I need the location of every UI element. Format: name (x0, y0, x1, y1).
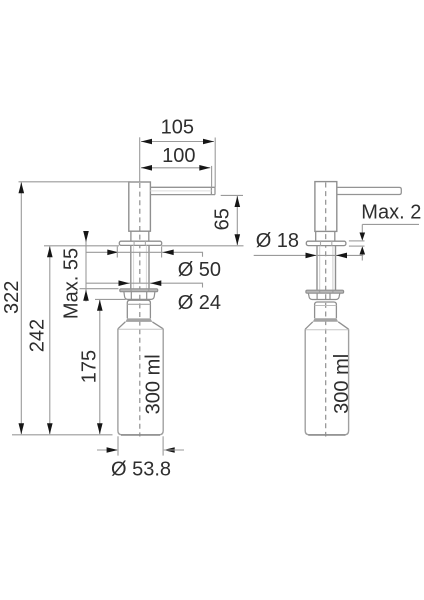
dim 242 (49, 246, 51, 434)
pump head body right (315, 182, 337, 232)
pump head body left (129, 182, 151, 231)
dim 175 (99, 300, 101, 435)
svg-text:175: 175 (78, 350, 100, 383)
flange right (306, 241, 346, 245)
bottle shoulder right (305, 322, 348, 329)
dim 105 line (141, 141, 214, 143)
svg-text:Ø 24: Ø 24 (178, 292, 221, 314)
spout right (337, 187, 402, 194)
svg-text:Max. 55: Max. 55 (61, 248, 83, 319)
dim 322 (20, 182, 22, 434)
bottle left (118, 329, 163, 435)
svg-text:322: 322 (1, 281, 23, 314)
extension lines for 105/100 (139, 137, 141, 182)
dim 100 line (141, 167, 210, 169)
svg-text:300 ml: 300 ml (143, 354, 165, 414)
centerline left view (139, 183, 141, 437)
svg-text:Ø 53.8: Ø 53.8 (111, 459, 171, 481)
svg-text:300 ml: 300 ml (331, 354, 353, 414)
nut right (308, 293, 339, 299)
svg-text:Ø 50: Ø 50 (178, 259, 221, 281)
dim diameter 50 (86, 252, 203, 256)
shaft left (131, 246, 149, 289)
shaded band right (313, 318, 338, 322)
dim diameter 24 (86, 283, 203, 287)
shaded band left (125, 318, 152, 322)
neck right (316, 231, 335, 241)
dim diameter 18 (254, 254, 364, 256)
dim 65 (221, 194, 243, 196)
svg-text:Max. 2: Max. 2 (361, 202, 421, 224)
small flange right (306, 290, 344, 293)
small flange left (120, 289, 158, 292)
spout left (150, 187, 215, 194)
svg-text:105: 105 (161, 117, 194, 139)
svg-text:Ø 18: Ø 18 (256, 230, 299, 252)
bottle cap right (315, 302, 337, 318)
flange (escutcheon) left (119, 241, 161, 245)
nut left (124, 292, 155, 300)
bottle cap left (127, 300, 150, 318)
svg-text:65: 65 (212, 208, 234, 230)
dim diameter 53.8 (117, 436, 119, 455)
centerline right view (325, 183, 327, 437)
bottle right (305, 329, 348, 435)
svg-text:242: 242 (26, 319, 48, 352)
shaft right (317, 246, 336, 290)
dim Max. 2 (362, 223, 419, 225)
dim Max. 55 (85, 233, 87, 302)
bottle shoulder left (118, 322, 163, 329)
svg-text:100: 100 (162, 145, 195, 167)
neck left (131, 231, 149, 241)
